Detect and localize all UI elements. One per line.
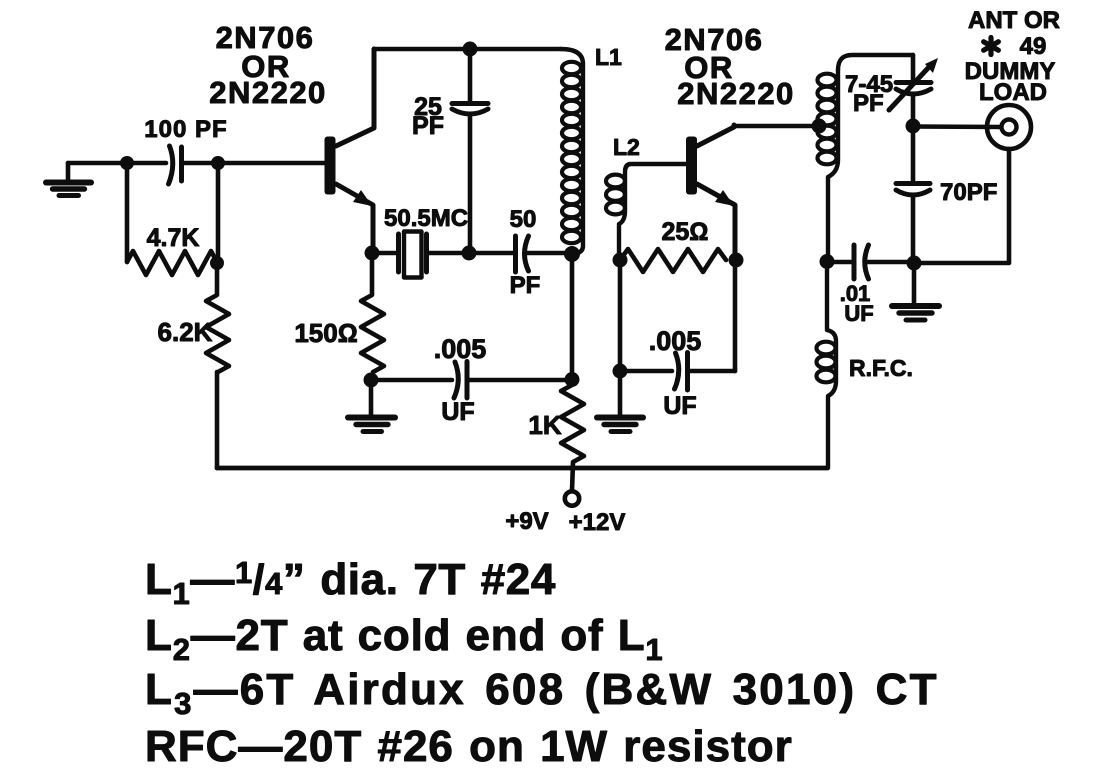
- node L3 tap: [812, 119, 827, 134]
- wire Q2 collector to L3 tap: [734, 124, 818, 129]
- wire node A down to R1: [125, 163, 130, 262]
- resistor R4 1K: [528, 379, 584, 491]
- transistor Q2: [665, 22, 795, 260]
- svg-text:49: 49: [1020, 33, 1047, 60]
- connector J1 antenna jack: [913, 105, 1031, 149]
- resistor R2 6.2K: [158, 263, 229, 372]
- svg-text:100 PF: 100 PF: [144, 116, 227, 143]
- node R3 bottom: [364, 373, 379, 388]
- wire node B down to junction: [216, 163, 221, 262]
- node R1/R2 junction: [210, 256, 224, 270]
- svg-text:L1—1/4” dia. 7T #24: L1—1/4” dia. 7T #24: [145, 555, 556, 611]
- svg-text:.005: .005: [434, 334, 487, 364]
- node C top: [463, 42, 478, 57]
- svg-text:70PF: 70PF: [940, 179, 997, 206]
- terminal power: [505, 491, 625, 536]
- svg-text:LOAD: LOAD: [979, 79, 1047, 106]
- capacitor C7 variable 7-45 PF: [845, 55, 938, 126]
- inductor RFC: [817, 261, 913, 468]
- resistor R3 150 ohm: [294, 253, 384, 372]
- capacitor C2 25PF: [412, 49, 488, 253]
- ground G1 top-left: [46, 163, 91, 196]
- node E emitter junction: [365, 246, 380, 261]
- svg-text:PF: PF: [412, 112, 444, 140]
- svg-text:UF: UF: [663, 392, 696, 420]
- ground G3: [597, 371, 643, 432]
- transistor Q1: [209, 20, 374, 253]
- bottom rail wire: [217, 466, 827, 471]
- label ANT OR #49 DUMMY LOAD: [965, 7, 1060, 106]
- svg-text:2N2220: 2N2220: [209, 75, 327, 110]
- svg-text:4.7K: 4.7K: [147, 224, 200, 252]
- svg-text:+12V: +12V: [569, 509, 626, 536]
- capacitor C8 70PF: [896, 126, 997, 263]
- svg-text:.005: .005: [649, 326, 702, 356]
- svg-text:1K: 1K: [528, 410, 561, 440]
- svg-text:150Ω: 150Ω: [294, 318, 357, 348]
- wire L1 bottom to node G1: [570, 254, 575, 379]
- svg-text:UF: UF: [844, 301, 873, 326]
- wire Q1 collector top rail: [374, 47, 561, 52]
- resistor R5 25 ohm: [620, 218, 726, 272]
- svg-text:ANT OR: ANT OR: [968, 7, 1060, 34]
- wire R2 to bottom rail: [215, 372, 220, 468]
- node F L1 bottom: [564, 246, 580, 262]
- node A: [120, 156, 134, 170]
- svg-text:L2: L2: [613, 134, 640, 160]
- ground G4: [892, 263, 939, 320]
- capacitor C1 100PF: [144, 116, 227, 184]
- node L2 bottom: [613, 253, 628, 268]
- inductor L1: [561, 44, 622, 254]
- svg-text:PF: PF: [853, 90, 884, 117]
- capacitor C3 50PF: [469, 206, 566, 299]
- node H: [907, 256, 922, 271]
- capacitor C6 .01 UF: [827, 245, 913, 326]
- capacitor C5 .005 UF: [620, 260, 735, 420]
- wire C1 to Q1 base: [182, 161, 326, 166]
- node R5 right: [729, 253, 744, 268]
- node L2 lower: [613, 364, 628, 379]
- node J RFC top: [820, 254, 835, 269]
- svg-text:PF: PF: [510, 272, 541, 299]
- capacitor C4 .005 UF: [371, 334, 569, 426]
- node G1: [565, 372, 580, 387]
- svg-text:L3—6T Airdux 608 (B&W 3010) CT: L3—6T Airdux 608 (B&W 3010) CT: [145, 665, 939, 721]
- resistor R1 4.7K: [127, 224, 217, 275]
- ground G2: [348, 380, 395, 432]
- legend text: [145, 555, 939, 771]
- wire jack down to node H: [914, 149, 1009, 263]
- wire L2 node down: [618, 260, 623, 371]
- crystal Y1 50.5MC: [372, 205, 468, 278]
- svg-text:50: 50: [510, 206, 537, 233]
- inductor L3: [818, 55, 914, 261]
- svg-text:RFC—20T #26 on 1W resistor: RFC—20T #26 on 1W resistor: [145, 722, 793, 771]
- svg-text:+9V: +9V: [505, 508, 548, 535]
- svg-text:L2—2T at cold end of L1: L2—2T at cold end of L1: [145, 611, 663, 667]
- inductor L2: [606, 134, 687, 260]
- node G var cap bottom: [906, 119, 921, 134]
- svg-text:UF: UF: [441, 398, 474, 426]
- wire ground to C1: [68, 161, 166, 166]
- svg-text:R.F.C.: R.F.C.: [849, 355, 913, 381]
- svg-text:L1: L1: [595, 44, 622, 70]
- svg-text:2N2220: 2N2220: [677, 76, 795, 111]
- svg-text:25Ω: 25Ω: [661, 218, 708, 246]
- svg-text:50.5MC: 50.5MC: [384, 205, 468, 232]
- node D: [462, 246, 477, 261]
- node B: [211, 156, 225, 170]
- svg-text:6.2K: 6.2K: [158, 317, 213, 347]
